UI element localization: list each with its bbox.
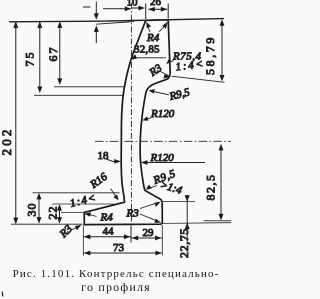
dimension 22,75 — [186, 195, 188, 242]
svg-text:R4: R4 — [100, 212, 114, 224]
extension line for 67 — [54, 86, 124, 88]
svg-text:75: 75 — [22, 51, 36, 67]
dimension 58,79 — [221, 21, 223, 81]
dimension 22 — [59, 205, 61, 222]
small mark bottom left — [1, 292, 4, 297]
svg-text:26: 26 — [150, 0, 162, 8]
svg-text:73: 73 — [113, 242, 125, 254]
extension line foot bottom right — [163, 222, 232, 225]
svg-text:Рис. 1.101. Контррельс специал: Рис. 1.101. Контррельс специально- — [13, 268, 220, 280]
svg-text:82,5: 82,5 — [204, 174, 218, 201]
svg-text:10: 10 — [127, 0, 139, 9]
rail profile outline — [84, 20, 170, 225]
svg-text:22,75: 22,75 — [177, 228, 191, 258]
head dome second line — [96, 22, 134, 25]
tick between 44 and 29 — [130, 226, 132, 243]
svg-text:R120: R120 — [150, 152, 175, 164]
top reference line — [9, 19, 224, 22]
svg-text:го профиля: го профиля — [81, 280, 151, 294]
extension line foot bottom left — [11, 223, 83, 225]
svg-text:22: 22 — [46, 206, 60, 220]
extension line for 22 — [52, 203, 114, 205]
extension line for 30 — [33, 192, 120, 194]
extension line for 75 — [34, 94, 123, 96]
tick for 26 right — [167, 4, 169, 19]
dimension 10 line — [103, 8, 131, 10]
svg-text:67: 67 — [46, 46, 60, 62]
tick for 10 at head corner — [145, 4, 147, 20]
tiny top dimension down arrow — [95, 2, 97, 15]
extension line foot corner — [61, 212, 85, 214]
dimension 82,5 — [220, 145, 222, 220]
sloped extension line head underside — [172, 76, 225, 82]
tiny top dimension up arrow — [95, 30, 97, 43]
right shared extension tick for 29/73 — [161, 225, 163, 256]
centre line horizontal (dash-dot) — [95, 140, 231, 142]
svg-text:30: 30 — [25, 203, 39, 217]
svg-text:R120: R120 — [150, 108, 175, 120]
svg-text:R3: R3 — [126, 208, 140, 220]
dimension 202 — [15, 23, 17, 223]
dimension 73 — [83, 252, 162, 254]
dimension 18 — [105, 159, 120, 162]
svg-text:R4: R4 — [146, 32, 160, 44]
svg-text:202: 202 — [0, 126, 14, 155]
dimension 26 line — [148, 8, 167, 10]
extension line for 22,75 top — [163, 201, 195, 203]
dimension 67 — [59, 23, 61, 84]
svg-text:44: 44 — [103, 226, 115, 238]
svg-text:18: 18 — [98, 150, 110, 162]
centre line vertical (dash-dot) — [130, 3, 132, 226]
dimension 75 — [39, 23, 41, 92]
dimension 29 — [131, 237, 162, 239]
dimension 44 — [83, 236, 130, 238]
dimension 30 — [38, 194, 40, 222]
left shared extension tick for 44/73 — [82, 226, 84, 256]
svg-text:32,85: 32,85 — [134, 44, 160, 56]
svg-text:29: 29 — [143, 227, 155, 239]
tiny top dimension broken line left dash — [83, 6, 91, 8]
